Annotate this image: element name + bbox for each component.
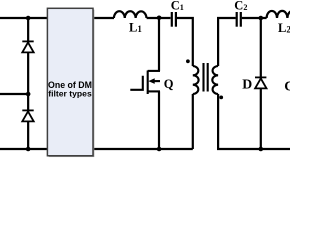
wire mid AC input bbox=[0, 93, 28, 95]
MOSFET body arrow head bbox=[148, 78, 154, 84]
svg-text:C2: C2 bbox=[234, 0, 247, 13]
wire MOSFET drain vertical bbox=[158, 18, 160, 71]
wire MOSFET source vertical bbox=[158, 91, 160, 149]
node mid AC / bridge leg bbox=[26, 92, 31, 97]
svg-text:filter types: filter types bbox=[48, 88, 92, 98]
diode D1 upper bridge diode bbox=[22, 41, 33, 52]
node bottom rail / diode branch bbox=[259, 147, 264, 152]
node top rail / MOSFET drain bbox=[157, 15, 162, 20]
svg-text:Q: Q bbox=[164, 77, 174, 91]
wire bottom rail left bbox=[0, 148, 48, 150]
channel bar bbox=[147, 71, 149, 95]
drain stub bbox=[148, 70, 160, 72]
node top rail / bridge leg bbox=[26, 16, 31, 21]
inductor L2 bbox=[267, 11, 298, 18]
wire L1 to C1 bbox=[147, 17, 171, 19]
wire secondary top to C2 bbox=[218, 18, 236, 66]
DM filter box bbox=[47, 8, 93, 155]
wire C1 to primary top corner bbox=[177, 18, 193, 66]
body stub with arrow bbox=[154, 80, 161, 82]
node bottom rail / bridge leg bbox=[26, 147, 31, 152]
transformer secondary polarity dot bbox=[219, 96, 223, 100]
diode D output bbox=[255, 77, 267, 88]
transformer primary winding bbox=[193, 66, 199, 94]
wire diode D branch vertical bbox=[260, 18, 262, 149]
wire bottom rail box to transformer primary bbox=[93, 148, 193, 150]
source stub bbox=[148, 90, 160, 92]
svg-text:C: C bbox=[284, 79, 290, 94]
transistor Q1 MOSFET bbox=[130, 71, 160, 95]
wire top rail box to L1 bbox=[93, 17, 114, 19]
svg-text:C1: C1 bbox=[171, 0, 184, 13]
transformer primary polarity dot bbox=[186, 59, 190, 63]
wire bridge leg vertical bbox=[27, 18, 29, 149]
capacitor C1 bbox=[172, 12, 176, 27]
svg-text:L2: L2 bbox=[278, 21, 290, 35]
node bottom rail / MOSFET source bbox=[157, 147, 162, 152]
DM filter box shadow bbox=[49, 10, 95, 157]
capacitor C2 bbox=[237, 12, 241, 27]
svg-text:L1: L1 bbox=[129, 20, 142, 34]
wire top rail left (input to filter box) bbox=[0, 17, 48, 19]
gate lead bbox=[130, 76, 143, 90]
wire secondary bottom to rail right bbox=[218, 94, 290, 149]
diode D2 lower bridge diode bbox=[22, 110, 33, 121]
inductor L1 bbox=[114, 11, 147, 18]
transformer core bbox=[204, 63, 208, 92]
wire C2 to L2 junction bbox=[242, 17, 267, 19]
wire primary bottom bbox=[192, 94, 194, 149]
transformer secondary winding bbox=[212, 66, 218, 94]
node C2 / L2 / diode branch bbox=[259, 16, 264, 21]
svg-text:D: D bbox=[242, 77, 252, 92]
